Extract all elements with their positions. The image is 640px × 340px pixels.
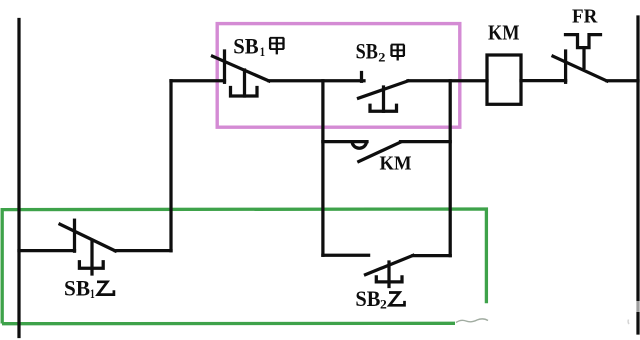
label SB2乙: [355, 286, 404, 312]
wire: SB1乙 to vertical x=170.8: [115, 249, 171, 252]
thermal overload relay FR : heater element bracket: [566, 35, 601, 48]
wire: KM coil to FR: [521, 79, 566, 82]
wire: vertical drop at x=450: [449, 81, 452, 256]
svg-text:KM: KM: [488, 21, 520, 45]
wire: vertical drop at x=170.8 (to SB1乙 branch): [169, 81, 172, 251]
auxiliary contact KM : movable contact blade: [359, 142, 401, 161]
svg-text:SB: SB: [64, 276, 90, 301]
wire: x=322.5 vertical to SB2乙: [323, 254, 369, 257]
wire: vertical drop at x=322.5: [321, 81, 324, 256]
auxiliary contact KM : left wire: [323, 140, 367, 143]
pushbutton SB2乙 (NO start button, location 2) : movable contact blade: [366, 255, 414, 274]
contactor coil KM: [487, 55, 521, 104]
watermark smudge at end of green underline: [456, 319, 488, 323]
pushbutton SB1甲 : actuator cap: [231, 88, 258, 97]
pushbutton SB2甲 : actuator stem: [382, 87, 385, 111]
wire: top rung into SB1甲: [171, 79, 225, 82]
label SB1甲: [233, 34, 284, 59]
fade on lower right rail: [635, 301, 640, 312]
wire: FR to right rail: [607, 79, 638, 82]
svg-text:KM: KM: [380, 153, 412, 175]
svg-text:2: 2: [378, 49, 385, 64]
wire: left rail to SB1乙: [19, 249, 75, 252]
green highlight box (start buttons group): [2, 209, 486, 324]
pushbutton SB1甲 : actuator stem: [243, 70, 246, 96]
thermal overload relay FR : trip stem: [582, 48, 585, 68]
pushbutton SB2乙 : actuator cap: [376, 277, 402, 282]
svg-text:FR: FR: [572, 6, 597, 28]
label SB2甲: [356, 39, 405, 65]
pushbutton SB1乙 : movable contact blade: [60, 224, 115, 251]
wire: SB2甲 to KM coil: [408, 79, 487, 82]
wire: SB2乙 to vertical x=450: [413, 254, 450, 257]
pushbutton SB1乙 : actuator cap: [79, 262, 103, 269]
svg-text:1: 1: [90, 286, 95, 301]
pushbutton SB2乙 : actuator stem: [387, 262, 390, 287]
svg-text:SB: SB: [233, 34, 258, 59]
label SB1乙: [64, 276, 114, 301]
left power rail: [17, 20, 20, 337]
svg-text:SB: SB: [355, 286, 380, 311]
pink highlight box (stop buttons group): [217, 24, 460, 128]
svg-text:1: 1: [260, 44, 265, 59]
pushbutton SB1甲 (NC stop button, location 1) : fixed contact tick: [223, 51, 226, 82]
pushbutton SB1乙 : actuator stem: [90, 241, 93, 275]
wire: SB1甲 to SB2甲: [269, 79, 364, 82]
pushbutton SB2甲 (NC stop button, location 2) : fixed contact tick: [360, 73, 363, 82]
auxiliary contact KM : fixed contact cup: [352, 142, 366, 149]
pushbutton SB2甲 : movable contact blade: [359, 81, 409, 98]
pushbutton SB1甲 : movable contact blade: [213, 56, 270, 81]
thermal overload relay FR : fixed contact tick: [564, 51, 567, 82]
svg-text:2: 2: [380, 297, 387, 312]
pushbutton SB1乙 (NO start button, location 1) : fixed contact tick: [73, 220, 76, 251]
thermal overload relay FR : movable contact blade: [553, 56, 607, 81]
svg-text:SB: SB: [356, 39, 379, 64]
pushbutton SB2甲 : actuator cap: [370, 105, 397, 111]
right power rail: [636, 17, 639, 333]
auxiliary contact KM : right wire: [401, 140, 451, 143]
faint mark near right rail bottom: [627, 320, 630, 325]
